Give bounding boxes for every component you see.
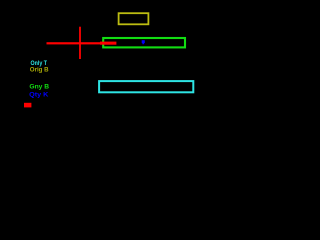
red track segment inside green footprint [100, 42, 116, 45]
via (blue dot) [142, 40, 145, 43]
crosshair cursor (horizontal) [47, 42, 104, 44]
pad (red block) [24, 103, 31, 108]
component outline U1 (yellow box) [119, 13, 149, 24]
svg-text:Qty K: Qty K [29, 92, 49, 99]
svg-text:Orig B: Orig B [30, 66, 49, 73]
svg-text:Gny B: Gny B [29, 83, 49, 90]
component outline U2 (green box) [103, 38, 185, 47]
component outline U3 (cyan box) [99, 81, 193, 92]
crosshair cursor (vertical) [79, 27, 81, 59]
